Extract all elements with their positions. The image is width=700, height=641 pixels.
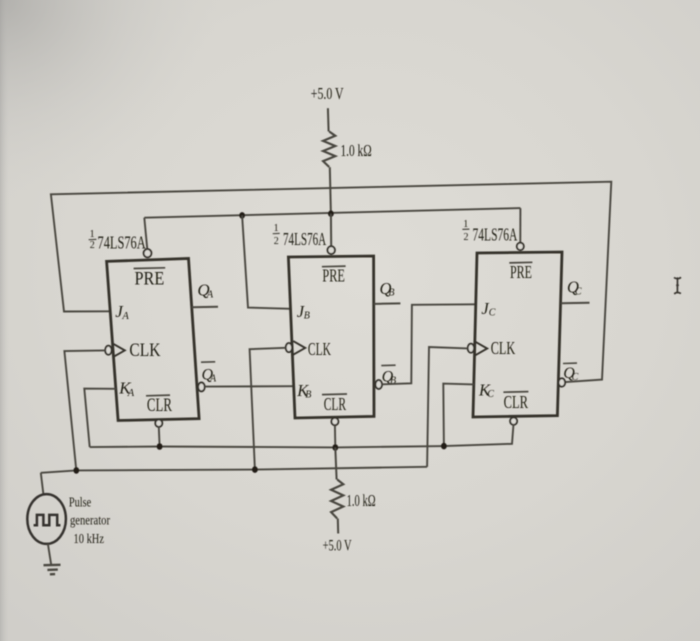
label QC output xyxy=(567,278,582,298)
svg-text:A: A xyxy=(206,289,214,300)
wire CLKB xyxy=(250,348,286,470)
bubble U1 PRE xyxy=(144,249,152,257)
bubble U2 CLK xyxy=(286,343,292,352)
wire CLR net xyxy=(90,424,514,447)
wire PRE net to U3 PRE xyxy=(519,208,521,243)
svg-text:1: 1 xyxy=(90,229,95,240)
pin label U2 JB xyxy=(297,302,310,322)
resistor R1 1.0k top xyxy=(323,132,335,168)
svg-text:PRE: PRE xyxy=(322,265,345,285)
wire CLKC xyxy=(427,347,468,467)
overline U3 CLR xyxy=(503,391,528,394)
wire U2 CLR to CLR net xyxy=(334,425,336,447)
bubble U2 CLR xyxy=(331,418,338,425)
svg-text:C: C xyxy=(572,372,579,383)
svg-text:generator: generator xyxy=(70,513,110,528)
bubble U1 CLR xyxy=(155,420,162,427)
label U1 fraction 1/2 xyxy=(89,229,97,251)
flip-flop U1 74LS76A box xyxy=(107,259,200,421)
svg-text:+5.0 V: +5.0 V xyxy=(323,538,352,555)
wire KC to CLR net xyxy=(443,384,474,447)
wire PRE net to U1 PRE xyxy=(144,218,147,250)
svg-text:A: A xyxy=(121,311,129,322)
label U2 fraction 1/2 xyxy=(273,223,280,247)
svg-text:+5.0 V: +5.0 V xyxy=(311,84,344,103)
svg-text:10 kHz: 10 kHz xyxy=(74,531,105,546)
label U3 fraction 1/2 xyxy=(462,219,469,243)
svg-text:C: C xyxy=(575,286,582,297)
pulse generator symbol xyxy=(27,494,66,544)
label QC-bar output xyxy=(563,365,578,383)
bubble U1 CLK xyxy=(105,346,111,355)
flip-flop U2 74LS76A box xyxy=(288,256,374,418)
bubble U3 PRE xyxy=(517,243,524,250)
overline U2 PRE xyxy=(322,265,346,268)
flip-flop U3 74LS76A box xyxy=(473,252,562,417)
svg-text:1: 1 xyxy=(463,219,468,230)
wire QB-bar to JC xyxy=(382,304,476,384)
pin label U1 JA xyxy=(115,302,129,322)
svg-text:A: A xyxy=(209,373,217,384)
overline U1 CLR xyxy=(146,394,170,397)
triangle U1 CLK xyxy=(113,344,125,358)
resistor R2 1.0k bottom xyxy=(331,480,343,519)
bubble U2 Q-bar xyxy=(375,380,382,389)
overline QA-bar label xyxy=(201,361,215,363)
svg-text:1.0 kΩ: 1.0 kΩ xyxy=(347,491,376,510)
svg-text:CLR: CLR xyxy=(504,392,528,412)
wire R1 to PRE-net junction xyxy=(330,167,331,214)
wire U1 CLR to CLR net xyxy=(158,427,161,447)
square wave glyph xyxy=(34,515,61,525)
overline U1 PRE xyxy=(134,267,166,270)
wire QC stub xyxy=(561,302,590,305)
wire Q̄C to JA outer loop xyxy=(51,182,611,382)
svg-text:B: B xyxy=(388,288,394,299)
wire PRE net horizontal xyxy=(144,208,520,218)
svg-text:74LS76A: 74LS76A xyxy=(473,224,518,244)
label QA output xyxy=(197,280,213,300)
overline U2 CLR xyxy=(322,393,347,396)
node R1/U2-PRE junction xyxy=(328,210,334,217)
svg-text:74LS76A: 74LS76A xyxy=(98,232,146,252)
svg-text:1.0 kΩ: 1.0 kΩ xyxy=(341,141,372,160)
pin label U2 KB xyxy=(296,381,311,401)
svg-text:B: B xyxy=(305,390,311,401)
bubble U3 CLR xyxy=(510,417,517,424)
overline QC-bar label xyxy=(563,362,577,364)
label QA-bar output xyxy=(202,367,218,385)
svg-text:2: 2 xyxy=(464,232,469,243)
bubble U2 PRE xyxy=(328,246,335,254)
bubble U1 Q-bar xyxy=(198,383,205,392)
svg-text:A: A xyxy=(127,388,135,399)
label QB-bar output xyxy=(382,369,397,387)
svg-text:2: 2 xyxy=(90,240,95,251)
node CLKB junction xyxy=(252,466,258,473)
node CLKA junction xyxy=(73,467,79,474)
svg-text:B: B xyxy=(304,311,310,322)
wire generator to ground xyxy=(48,544,51,564)
svg-text:1: 1 xyxy=(274,223,279,234)
overline U3 PRE xyxy=(509,261,532,264)
bubble U3 Q-bar xyxy=(559,378,566,386)
pin label U1 KA xyxy=(118,379,134,399)
node U1-CLR junction xyxy=(157,443,163,450)
svg-text:CLR: CLR xyxy=(324,394,346,414)
wire junction to U2 PRE xyxy=(330,214,332,247)
svg-text:CLK: CLK xyxy=(308,339,331,359)
wire clock net to generator xyxy=(41,473,44,495)
wire R2 to +5V xyxy=(337,519,339,534)
bubble U3 CLK xyxy=(468,344,474,353)
svg-text:Pulse: Pulse xyxy=(69,494,91,509)
node U2-CLR/R2 junction xyxy=(332,444,338,451)
wire KA to CLR net xyxy=(84,389,116,448)
triangle U3 CLK xyxy=(475,342,487,356)
node KC junction xyxy=(441,443,447,450)
wire clock net xyxy=(41,467,427,473)
wire QA stub xyxy=(192,306,218,309)
svg-text:PRE: PRE xyxy=(510,262,532,282)
pin label U3 KC xyxy=(478,380,494,400)
svg-text:CLR: CLR xyxy=(147,395,172,416)
node JB tap junction xyxy=(239,212,245,219)
svg-text:2: 2 xyxy=(274,236,279,247)
svg-text:C: C xyxy=(489,308,496,319)
wire CLR net to R2 xyxy=(335,448,336,480)
overline QB-bar label xyxy=(381,364,395,366)
label QB output xyxy=(380,279,395,299)
ground symbol xyxy=(44,565,61,575)
wire +5V top lead xyxy=(327,108,330,131)
wire PRE net to JB xyxy=(242,215,291,308)
svg-text:CLK: CLK xyxy=(491,338,516,358)
wire QA-bar to KB xyxy=(205,385,294,387)
pin label U3 JC xyxy=(481,299,495,319)
wire QB stub xyxy=(374,302,401,305)
svg-text:PRE: PRE xyxy=(135,268,165,289)
svg-text:C: C xyxy=(487,389,494,400)
svg-text:74LS76A: 74LS76A xyxy=(283,229,326,249)
svg-text:CLK: CLK xyxy=(129,340,160,361)
triangle U2 CLK xyxy=(293,341,305,355)
text cursor I-beam xyxy=(674,277,681,294)
wire CLKA xyxy=(64,350,105,470)
